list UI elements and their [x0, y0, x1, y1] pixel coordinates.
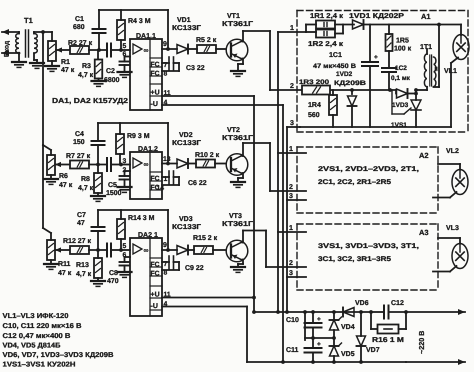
label FC pins DA2.1	[151, 261, 168, 278]
capacitor C2	[107, 44, 130, 57]
wire input bus down ch3	[42, 145, 44, 228]
wire 1T1 primary bottom	[414, 87, 427, 92]
thyristor 1VS1	[392, 90, 421, 127]
svg-text:VD1: VD1	[177, 17, 191, 24]
label R4 3 М	[128, 18, 151, 25]
terminal 2 label A2	[289, 184, 293, 191]
svg-text:-U: -U	[151, 303, 158, 310]
diode VD6	[343, 308, 354, 317]
svg-text:∞: ∞	[144, 162, 149, 169]
capacitor C5	[107, 158, 130, 171]
input arrow top	[2, 29, 19, 35]
wiper arrow R1	[56, 47, 69, 52]
ground under VT1	[231, 71, 245, 76]
op-amp DA2.1 box	[130, 238, 162, 316]
ground under pin6 capacitor DA2.1	[118, 272, 132, 277]
diode VD1	[177, 45, 197, 54]
svg-text:9: 9	[163, 41, 167, 48]
label 1VD2 КД209В	[334, 71, 366, 87]
transistor VT1	[226, 39, 248, 61]
module A3 dashed box	[297, 224, 438, 290]
svg-text:C4: C4	[75, 131, 84, 138]
svg-text:1: 1	[289, 225, 293, 232]
svg-text:9: 9	[163, 242, 167, 249]
wire +U rail ch1 pin 11	[162, 95, 254, 97]
svg-text:VD6, VD7, 1VD3–3VD3 КД209В: VD6, VD7, 1VD3–3VD3 КД209В	[3, 352, 114, 359]
module A3 contents text	[318, 243, 419, 263]
svg-text:C10: C10	[286, 317, 299, 324]
svg-text:A2: A2	[419, 151, 429, 160]
terminal 3 label A1	[290, 120, 294, 127]
label R11 47 к	[58, 261, 72, 277]
svg-text:1: 1	[289, 146, 293, 153]
svg-text:Вход: Вход	[4, 41, 11, 57]
label FC pins DA1.1	[151, 62, 168, 78]
wire feedback down ch2	[167, 123, 169, 164]
wire +U bus down	[253, 96, 255, 312]
zener VD5	[330, 338, 342, 362]
svg-text:R11: R11	[58, 261, 71, 268]
wire VT1 emitter to ground	[238, 59, 243, 72]
capacitor C6 on FC pins	[162, 171, 179, 185]
svg-text:1R2 2,4 к: 1R2 2,4 к	[308, 41, 344, 48]
terminal 1 label A3	[289, 225, 293, 232]
svg-text:R13: R13	[76, 262, 89, 269]
label VD5	[341, 351, 355, 358]
svg-text:3: 3	[289, 193, 293, 200]
wire mid tap	[305, 336, 336, 340]
svg-text:47 мк×450 В: 47 мк×450 В	[313, 63, 356, 70]
pin 6	[123, 51, 127, 58]
wire -U bus down	[282, 105, 284, 362]
pin 6 bias capacitor	[120, 57, 131, 73]
svg-text:150: 150	[73, 139, 85, 146]
wire common bus terminal 3	[286, 127, 288, 312]
svg-text:FC: FC	[151, 176, 160, 183]
legend line C10 C11	[3, 323, 82, 330]
op-amp DA2.1 triangle	[133, 244, 149, 255]
svg-text:FC: FC	[151, 62, 160, 69]
svg-text:A1: A1	[421, 12, 431, 21]
svg-text:1R5: 1R5	[396, 38, 409, 45]
svg-text:+: +	[317, 316, 321, 323]
wire R2 to C2	[89, 48, 107, 52]
svg-text:R9 3 М: R9 3 М	[127, 133, 150, 140]
resistor 1R1	[306, 21, 354, 33]
transformer T1 label	[24, 16, 33, 25]
svg-text:VT2: VT2	[227, 127, 240, 134]
wire primary bottom to ground	[18, 52, 21, 62]
label C6 22	[188, 180, 207, 187]
svg-text:4,7 к: 4,7 к	[76, 271, 92, 278]
legend line C12	[3, 333, 71, 340]
wire ch1 collector down to A1 terminal 2	[269, 31, 271, 90]
svg-text:4,7 к: 4,7 к	[78, 185, 94, 192]
wire secondary bottom to ground	[34, 53, 37, 63]
svg-text:+U: +U	[151, 292, 160, 299]
svg-text:VL3: VL3	[446, 225, 459, 232]
svg-text:VD2: VD2	[179, 132, 193, 139]
svg-text:+: +	[317, 341, 321, 348]
svg-text:5: 5	[123, 43, 127, 50]
svg-text:-U: -U	[151, 101, 158, 108]
svg-text:R4 3 М: R4 3 М	[128, 18, 151, 25]
svg-text:VD4: VD4	[341, 324, 355, 331]
op-amp DA1.1 triangle	[133, 44, 149, 55]
label 1VD3	[392, 102, 409, 109]
ground under R13	[91, 281, 105, 286]
label C7 47	[77, 212, 86, 227]
wire A3 terminal 2 stub	[266, 266, 306, 268]
ground under pin6 capacitor	[118, 72, 132, 77]
wire R7 to C5	[89, 163, 107, 167]
legend line VD4 VD5	[3, 343, 61, 350]
capacitor C1	[93, 10, 106, 50]
svg-text:КТ361Г: КТ361Г	[222, 221, 253, 228]
svg-text:C12 0,47 мк×400 В: C12 0,47 мк×400 В	[3, 333, 71, 340]
svg-text:6800: 6800	[104, 77, 120, 84]
wire A1 bottom rail	[300, 126, 451, 128]
label FC pins DA1.2	[151, 176, 168, 193]
transformer T1	[16, 30, 38, 57]
wire VT3 collector	[241, 231, 266, 243]
label A2	[419, 151, 429, 160]
svg-text:47 к: 47 к	[59, 182, 73, 189]
wire A1 trigger row	[331, 88, 396, 92]
label R13 4,7 к	[76, 262, 92, 278]
pin 9 label DA2.1	[163, 242, 167, 249]
svg-text:~220 В: ~220 В	[417, 331, 426, 354]
svg-text:1VS1: 1VS1	[391, 122, 407, 129]
label VD7	[366, 347, 380, 354]
svg-text:R6: R6	[59, 173, 68, 180]
wire feedback top ch2	[98, 122, 168, 124]
resistor R13	[94, 250, 102, 281]
svg-text:C6 22: C6 22	[188, 180, 207, 187]
svg-text:КС133Г: КС133Г	[172, 140, 201, 147]
label A1	[421, 12, 431, 21]
wire ch3 collector down to A3 terminal 2	[265, 231, 267, 268]
wire stub A2 terminal 1	[278, 152, 306, 154]
label C5 1500	[106, 182, 122, 197]
svg-text:R10 2 к: R10 2 к	[195, 152, 220, 159]
label R2 27 к	[68, 40, 93, 47]
svg-text:VD7: VD7	[366, 347, 380, 354]
wire A2 terminal 3 stub	[287, 199, 306, 201]
lamp VL2	[438, 164, 468, 195]
wire supply top rail	[254, 310, 371, 314]
label R5 2 к	[196, 37, 217, 44]
label R9 3 М	[127, 133, 150, 140]
svg-text:R14 3 М: R14 3 М	[128, 215, 155, 222]
label VD1 КС133Г	[172, 17, 201, 32]
svg-text:1R3 200: 1R3 200	[299, 79, 329, 86]
svg-text:1VD2: 1VD2	[336, 71, 353, 78]
capacitor C9 on FC pins	[162, 256, 179, 270]
wire VT2 collector	[241, 143, 270, 156]
label 1R2 2,4 к	[308, 41, 344, 48]
svg-text:FC: FC	[151, 271, 160, 278]
svg-text:VD6: VD6	[355, 300, 369, 307]
lamp VL1	[453, 25, 469, 60]
label VL3	[446, 225, 459, 232]
label +U -U DA2.1	[151, 292, 171, 311]
module A2 dashed box	[297, 147, 438, 213]
svg-text:470: 470	[107, 278, 119, 285]
svg-text:Т1: Т1	[24, 16, 33, 25]
svg-text:3: 3	[123, 158, 127, 165]
svg-text:КС133Г: КС133Г	[172, 25, 201, 32]
pin 6 bias capacitor DA2.1	[120, 257, 131, 272]
svg-text:DA2 1: DA2 1	[138, 232, 158, 239]
label VL2	[446, 148, 459, 155]
terminal 2 label A3	[289, 260, 293, 267]
label C12	[391, 300, 404, 307]
resistor R9 3M	[116, 123, 124, 165]
label DA1.1	[136, 33, 156, 40]
wire VT2 emitter to ground	[238, 173, 243, 182]
svg-text:C10, C11 220 мк×16 В: C10, C11 220 мк×16 В	[3, 323, 82, 330]
label R8 4,7 к	[78, 176, 94, 192]
label VD3 КС133Г	[172, 216, 201, 231]
svg-text:C12: C12	[391, 300, 404, 307]
ground under R11	[44, 264, 58, 269]
label +U -U DA1.1	[151, 90, 171, 109]
svg-text:∞: ∞	[144, 48, 149, 55]
label VL1	[444, 68, 457, 75]
wire VT1 collector	[241, 31, 270, 42]
label 1VS1	[391, 122, 407, 129]
op-amp DA1.2 box	[130, 152, 162, 199]
svg-text:0,1 мк: 0,1 мк	[391, 75, 411, 82]
svg-text:R8: R8	[81, 176, 90, 183]
label R14 3 М	[128, 215, 155, 222]
wire stub A3 terminal 1	[278, 231, 306, 233]
terminal 3 label A2	[289, 193, 293, 200]
label DA2 1	[138, 232, 158, 239]
svg-text:C5: C5	[108, 182, 117, 189]
diode 1VD2	[348, 88, 357, 127]
diode 1VD1	[353, 20, 462, 29]
label C10	[286, 317, 299, 324]
capacitor C7	[92, 210, 105, 250]
svg-text:2С1, 2С2, 2R1–2R5: 2С1, 2С2, 2R1–2R5	[318, 179, 391, 186]
label 1С1 47 мк-450В	[313, 52, 356, 70]
wire input bus jog to R11	[43, 228, 51, 240]
svg-text:2VS1, 2VD1–2VD3, 2Т1,: 2VS1, 2VD1–2VD3, 2Т1,	[318, 166, 419, 173]
diode VD3	[177, 246, 194, 255]
svg-text:VD5: VD5	[341, 351, 355, 358]
svg-text:КС133Г: КС133Г	[172, 224, 201, 231]
wire output pin9 ch3	[162, 248, 177, 252]
svg-text:VT1: VT1	[227, 13, 240, 20]
svg-text:DA1.1: DA1.1	[136, 33, 156, 40]
svg-text:C7: C7	[77, 212, 86, 219]
wire A2 terminal 2 stub	[270, 190, 306, 192]
wire input bus jog to R6	[43, 145, 51, 155]
pin 13 label	[163, 156, 171, 163]
resistor R3	[95, 50, 103, 81]
svg-text:FC: FC	[151, 71, 160, 78]
wire ch2 collector down to A2 terminal 2	[269, 143, 271, 191]
label R7 27 к	[66, 153, 91, 160]
resistor R4 3M	[117, 10, 125, 50]
transistor VT3	[226, 240, 248, 262]
label 1Т1	[420, 44, 432, 51]
svg-text:1Т1: 1Т1	[420, 44, 432, 51]
wiper arrow R6	[55, 162, 69, 167]
svg-text:КД209В: КД209В	[334, 80, 366, 87]
pin 6 DA2.1	[123, 252, 127, 259]
svg-text:2: 2	[290, 83, 294, 90]
pin 5	[123, 43, 127, 50]
svg-text:КТ361Г: КТ361Г	[222, 135, 253, 142]
svg-text:1VD3: 1VD3	[392, 102, 409, 109]
input arrow bottom	[2, 50, 19, 56]
ground under R6	[44, 179, 58, 184]
resistor 1R2	[306, 25, 343, 38]
ground under primary	[12, 62, 26, 67]
capacitor C8	[107, 244, 130, 257]
label C9 22	[185, 265, 204, 272]
label R16 1 М	[372, 337, 404, 344]
diode VD7	[357, 312, 366, 362]
wire VL2 bottom electrode	[433, 192, 457, 198]
wire VL3 bottom electrode	[433, 266, 457, 272]
wire 1T1 secondary	[434, 23, 441, 87]
resistor R15	[194, 246, 225, 254]
svg-text:3С1, 3С2, 3R1–3R5: 3С1, 3С2, 3R1–3R5	[318, 256, 391, 263]
svg-text:1R1 2,4 к: 1R1 2,4 к	[310, 13, 344, 20]
svg-text:1VS1–3VS1 КУ202Н: 1VS1–3VS1 КУ202Н	[3, 362, 76, 369]
label 1VD1 КД202Р	[349, 13, 404, 20]
capacitor C4	[92, 123, 105, 165]
wire input bus down	[42, 32, 44, 145]
ground under VT3	[231, 267, 245, 272]
wire +U rail ch3 pin 11	[162, 296, 256, 300]
svg-text:C2: C2	[106, 68, 115, 75]
wire R12 to C8	[89, 248, 107, 252]
potentiometer R6	[47, 155, 55, 179]
capacitor 1C1	[362, 25, 378, 128]
svg-text:VT3: VT3	[229, 213, 242, 220]
wire supply bottom rail	[247, 360, 406, 364]
wire to mains arrow bottom	[406, 359, 465, 365]
label C11	[286, 347, 299, 354]
svg-text:14: 14	[157, 185, 165, 192]
label VD6	[355, 300, 369, 307]
wire 1VD3 left	[395, 90, 397, 94]
wire output pin9 ch1	[162, 47, 177, 51]
label R15 2 к	[193, 235, 218, 242]
label C1 680	[73, 16, 85, 31]
svg-text:КТ361Г: КТ361Г	[222, 21, 253, 28]
label VT3 КТ361Г	[222, 213, 253, 228]
svg-text:560: 560	[308, 112, 320, 119]
potentiometer R11	[47, 240, 55, 264]
svg-text:R16 1 М: R16 1 М	[372, 337, 404, 344]
svg-text:C3 22: C3 22	[186, 65, 205, 72]
svg-text:VL1–VL3 ИФК-120: VL1–VL3 ИФК-120	[3, 313, 69, 320]
svg-text:1С1: 1С1	[329, 52, 342, 59]
svg-text:DA1.2: DA1.2	[138, 146, 158, 153]
ground under R8	[91, 196, 105, 201]
svg-text:C1: C1	[75, 16, 84, 23]
capacitor C12	[371, 306, 406, 319]
wire -U rail ch1 pin 4	[162, 104, 283, 106]
label C3 22	[186, 65, 205, 72]
pin 3	[123, 158, 127, 165]
label 1R4 560	[308, 102, 321, 119]
svg-text:1С2: 1С2	[395, 65, 407, 72]
wire mains bus to modules terminal 1	[278, 32, 306, 312]
resistor R7	[70, 161, 89, 169]
op-amp DA1.2 triangle	[133, 158, 149, 169]
wire output pin13 ch2	[162, 162, 177, 166]
label VT2 КТ361Г	[222, 127, 253, 142]
label II winding	[435, 66, 439, 73]
ground under VT2	[231, 182, 245, 187]
transistor VT2	[226, 154, 248, 176]
capacitor C3 on FC pins	[162, 57, 179, 71]
svg-text:+U: +U	[151, 90, 160, 97]
transformer 1Т1	[424, 54, 436, 87]
ground under R3	[92, 81, 106, 86]
resistor 1R5	[386, 25, 393, 69]
label R3 4,7 к	[78, 63, 94, 79]
label 1R1 2,4 к	[310, 13, 344, 20]
lamp VL3	[438, 238, 468, 269]
svg-text:4,7 к: 4,7 к	[78, 72, 94, 79]
svg-text:A3: A3	[419, 228, 429, 237]
label R1 47 к	[61, 59, 75, 74]
ground under R1	[45, 66, 59, 71]
wire feedback top ch3	[98, 209, 168, 211]
svg-text:C11: C11	[286, 347, 299, 354]
label DA1.2	[138, 146, 158, 153]
svg-text:5: 5	[123, 243, 127, 250]
label 1R3 200	[299, 79, 329, 86]
module A1 dashed box	[297, 11, 468, 133]
ground under pin2 capacitor	[118, 187, 132, 192]
resistor 1R4	[329, 90, 337, 127]
resistor R2	[70, 46, 89, 54]
ground under secondary	[30, 63, 44, 68]
terminal 1 label A2	[289, 146, 293, 153]
terminal 1 label A1	[290, 25, 294, 32]
svg-text:R2 27 к: R2 27 к	[68, 40, 93, 47]
wire mid tap drop	[303, 310, 307, 340]
svg-text:R1: R1	[61, 59, 70, 66]
svg-text:R5 2 к: R5 2 к	[196, 37, 217, 44]
legend line VD6 VD7	[3, 352, 114, 359]
svg-text:47 к: 47 к	[61, 67, 75, 74]
capacitor 1C2	[382, 68, 396, 90]
svg-text:R3: R3	[82, 63, 91, 70]
legend line 1VS1-3VS1	[3, 362, 76, 369]
diode 1VD3	[397, 89, 418, 98]
input label Вход	[4, 41, 11, 57]
wire VT3 emitter to ground	[238, 260, 243, 268]
svg-text:13: 13	[163, 156, 171, 163]
resistor R5	[197, 45, 225, 53]
svg-text:R15 2 к: R15 2 к	[193, 235, 218, 242]
op-amp DA1.1 box	[130, 39, 162, 110]
wire A3 terminal 3 stub	[287, 276, 306, 278]
wire VL1 bottom electrode	[451, 58, 458, 128]
resistor R8	[94, 165, 102, 197]
resistor R16 parallel loop	[369, 310, 408, 333]
